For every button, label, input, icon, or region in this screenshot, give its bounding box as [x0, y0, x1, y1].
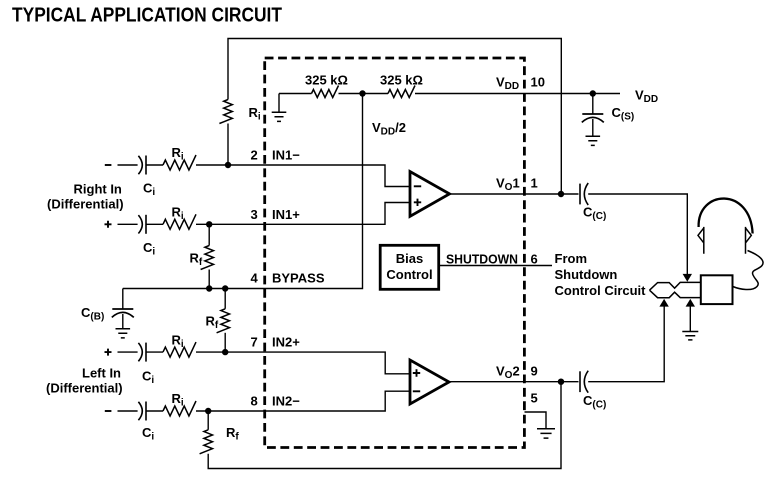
- wire Rf bottom feedback to VO2: [208, 382, 561, 469]
- svg-text:Shutdown: Shutdown: [555, 267, 618, 282]
- wire C(C) to headphone jack tip: [588, 194, 687, 275]
- svg-text:Bias: Bias: [396, 251, 423, 266]
- node VDD/2 divider junction: [359, 90, 365, 96]
- resistor Ri (IN1+): [163, 214, 196, 229]
- ground (pin 5): [537, 429, 555, 438]
- arrow up into jack (VO2): [659, 299, 668, 307]
- wire plus terminal to Ci: [118, 351, 138, 353]
- svg-text:6: 6: [531, 252, 538, 267]
- wire to divider node: [339, 93, 389, 95]
- resistor Ri (IN1-): [163, 155, 196, 170]
- svg-text:TYPICAL APPLICATION CIRCUIT: TYPICAL APPLICATION CIRCUIT: [12, 5, 283, 27]
- svg-text:1: 1: [531, 176, 538, 191]
- wire IN1+ node to Rf: [208, 224, 210, 245]
- node VO1 feedback junction: [558, 191, 564, 197]
- svg-text:C(C): C(C): [583, 393, 606, 411]
- svg-text:Ri: Ri: [172, 333, 184, 351]
- headphones cable: [733, 251, 763, 290]
- resistor Ri (IN2+): [163, 342, 196, 357]
- svg-text:IN2+: IN2+: [272, 335, 300, 350]
- ground (C(B)): [116, 329, 131, 338]
- IC package dashed outline U1: [265, 58, 525, 448]
- svg-text:VO2: VO2: [496, 364, 520, 382]
- resistor Rf (IN2- feedback): [200, 430, 213, 454]
- resistor Ri (feedback, vertical): [219, 100, 232, 124]
- headphone jack sleeve body: [701, 275, 733, 304]
- wire VO1 output: [450, 193, 579, 195]
- terminal minus (Right In): [105, 164, 112, 166]
- headphones left earpiece: [698, 227, 704, 254]
- wire IN1+ row into op-amp U1A non-inverting input: [196, 203, 410, 225]
- wire Ci to Ri: [146, 164, 163, 166]
- svg-text:Ci: Ci: [143, 181, 155, 199]
- svg-text:Ri: Ri: [249, 105, 261, 123]
- wire IN2- row into op-amp U1B inverting input: [196, 391, 410, 411]
- wire IN1- row into op-amp U1A inverting input: [196, 165, 410, 187]
- wire VDD pin 10 to VDD terminal: [415, 93, 620, 95]
- wire pin 5 to ground: [525, 412, 547, 429]
- svg-text:IN2−: IN2−: [272, 394, 300, 409]
- wire C(C) to headphone jack ring: [588, 306, 664, 381]
- wire minus terminal to Ci: [118, 410, 138, 412]
- node IN2- / Rf junction: [205, 408, 211, 414]
- wire Ci to Ri: [146, 351, 163, 353]
- node VO2 feedback junction: [558, 379, 564, 385]
- resistor 325 kOhm (right): [388, 86, 415, 98]
- headphone jack plug ring: [650, 290, 701, 298]
- wire IN2+ row into op-amp U1B non-inverting input: [196, 352, 410, 374]
- node VDD bypass junction: [590, 90, 596, 96]
- ground (jack): [682, 332, 698, 340]
- svg-text:IN1−: IN1−: [272, 148, 300, 163]
- arrow down into jack: [683, 274, 692, 282]
- svg-text:VO1: VO1: [496, 176, 520, 194]
- headphones headband: [699, 199, 753, 234]
- terminal plus (Right In): [105, 221, 112, 228]
- svg-text:From: From: [555, 251, 588, 266]
- svg-text:9: 9: [531, 364, 538, 379]
- svg-text:(Differential): (Differential): [47, 197, 124, 212]
- svg-text:2: 2: [251, 148, 258, 163]
- svg-text:Ri: Ri: [172, 391, 184, 409]
- svg-text:C(S): C(S): [612, 105, 635, 123]
- capacitor Ci (IN1-): [138, 156, 142, 174]
- svg-text:8: 8: [251, 394, 258, 409]
- svg-text:325 kΩ: 325 kΩ: [305, 73, 348, 88]
- svg-text:Rf: Rf: [206, 314, 219, 332]
- capacitor Ci (IN2-): [138, 402, 142, 420]
- svg-text:Ri: Ri: [172, 205, 184, 223]
- svg-text:VDD: VDD: [496, 75, 519, 93]
- svg-text:Right In: Right In: [74, 182, 122, 197]
- svg-text:Rf: Rf: [190, 251, 203, 269]
- capacitor C(C) (VO2): [579, 371, 581, 392]
- wire top feedback VO1 to Ri: [228, 39, 561, 195]
- wire Ci to Ri: [146, 223, 163, 225]
- svg-text:5: 5: [531, 391, 538, 406]
- svg-text:Control: Control: [386, 267, 432, 282]
- capacitor Ci (IN2+): [138, 343, 142, 361]
- svg-text:Ci: Ci: [142, 369, 154, 387]
- svg-text:325 kΩ: 325 kΩ: [380, 73, 423, 88]
- svg-text:3: 3: [251, 207, 258, 222]
- resistor 325 kOhm (left): [312, 86, 339, 98]
- resistor Rf (BYPASS to IN2+): [217, 309, 230, 333]
- resistor Ri (IN2-): [163, 401, 196, 416]
- wire ground to 325k resistor: [279, 93, 312, 95]
- svg-text:Left In: Left In: [82, 366, 121, 381]
- svg-text:Control Circuit: Control Circuit: [555, 283, 647, 298]
- ground arrow into jack sleeve: [686, 299, 695, 307]
- svg-text:7: 7: [251, 335, 258, 350]
- capacitor C(B): [112, 308, 133, 310]
- node IN1- / Ri junction: [225, 162, 231, 168]
- node IN2+ / Rf junction: [222, 349, 228, 355]
- terminal minus (Left In): [105, 410, 112, 412]
- svg-text:C(C): C(C): [583, 205, 606, 223]
- headphones right earpiece: [746, 227, 752, 254]
- svg-text:VDD: VDD: [635, 88, 658, 106]
- op-amp U1A: [410, 172, 450, 217]
- terminal plus (Left In): [105, 349, 112, 356]
- resistor Rf (IN1+ to BYPASS): [201, 246, 214, 270]
- wire BYPASS to C(B): [122, 289, 124, 310]
- headphone jack plug tip: [650, 282, 701, 290]
- svg-text:C(B): C(B): [81, 305, 104, 323]
- svg-text:Ri: Ri: [172, 145, 184, 163]
- svg-text:Rf: Rf: [226, 425, 239, 443]
- wire plus terminal to Ci: [118, 223, 138, 225]
- wire Ci to Ri: [146, 410, 163, 412]
- node BYPASS left: [206, 285, 212, 291]
- svg-text:10: 10: [531, 75, 545, 90]
- wire minus terminal to Ci: [118, 164, 138, 166]
- svg-text:4: 4: [251, 271, 259, 286]
- wire BYPASS node to Rf: [224, 289, 226, 309]
- wire Rf to IN2+ row: [224, 333, 226, 352]
- op-amp U1B: [410, 360, 449, 404]
- ground (C(S)): [586, 136, 601, 145]
- svg-text:Ci: Ci: [142, 425, 154, 443]
- wire SHUTDOWN: [439, 265, 552, 267]
- capacitor C(C) (VO1): [579, 184, 581, 205]
- svg-text:SHUTDOWN: SHUTDOWN: [446, 252, 518, 267]
- wire VO2 output: [449, 381, 579, 383]
- svg-text:VDD/2: VDD/2: [372, 120, 406, 138]
- bias control block: [380, 245, 439, 289]
- wire Rf to BYPASS row: [208, 270, 210, 289]
- node BYPASS right: [222, 285, 228, 291]
- wire Ri bottom to IN1- node: [227, 124, 229, 166]
- svg-text:IN1+: IN1+: [272, 207, 300, 222]
- svg-text:BYPASS: BYPASS: [272, 271, 325, 286]
- node IN1+ / Rf junction: [206, 221, 212, 227]
- ground (divider): [278, 94, 280, 113]
- capacitor C(S): [592, 94, 594, 115]
- wire IN2- node to Rf: [207, 411, 209, 430]
- svg-text:(Differential): (Differential): [46, 381, 123, 396]
- svg-text:Ci: Ci: [143, 240, 155, 258]
- capacitor Ci (IN1+): [138, 215, 142, 233]
- wire VDD/2 node down to BYPASS: [123, 94, 363, 289]
